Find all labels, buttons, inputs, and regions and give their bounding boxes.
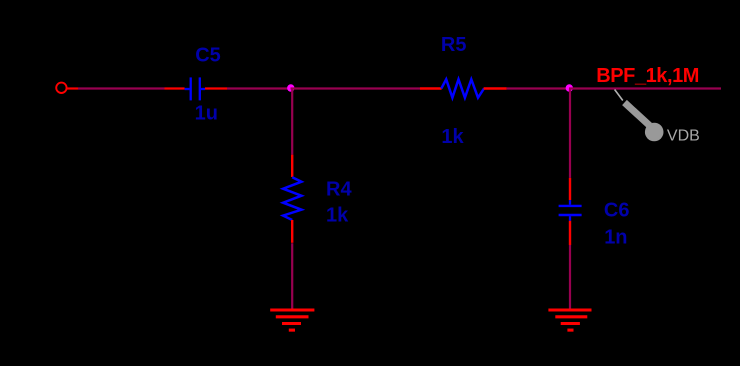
wire: input to C5 (net): [78, 87, 165, 89]
svg-text:R5: R5: [441, 34, 467, 56]
wire: input pin stub (red): [67, 87, 78, 89]
wire: node B down to C6: [569, 89, 571, 178]
node B junction dot: [566, 84, 573, 91]
wire: node B to output end: [569, 87, 721, 89]
svg-text:C5: C5: [195, 45, 221, 67]
ground 1: [270, 310, 314, 330]
input terminal (open circle): [56, 83, 66, 93]
svg-text:VDB: VDB: [667, 128, 700, 145]
svg-text:1n: 1n: [604, 227, 627, 249]
wire: R4 to ground 1: [291, 243, 293, 309]
wire: node A down to R4: [291, 89, 293, 155]
svg-text:1k: 1k: [326, 205, 349, 227]
svg-text:1u: 1u: [195, 103, 218, 125]
resistor R5: [420, 79, 507, 97]
svg-text:BPF_1k,1M: BPF_1k,1M: [596, 65, 699, 87]
wire: R5 to node B: [507, 87, 569, 89]
wire: C6 to ground 2: [569, 245, 571, 310]
svg-text:C6: C6: [604, 200, 630, 222]
ground 2: [548, 310, 591, 330]
capacitor C5: [165, 77, 228, 100]
node A junction dot: [287, 84, 294, 91]
capacitor C6: [559, 178, 582, 245]
wire: node A to R5: [291, 87, 421, 89]
wire: C5 to node A: [227, 87, 291, 89]
probe VDB: [615, 90, 664, 142]
svg-text:1k: 1k: [441, 126, 464, 148]
resistor R4: [283, 155, 301, 243]
svg-text:R4: R4: [326, 178, 352, 200]
